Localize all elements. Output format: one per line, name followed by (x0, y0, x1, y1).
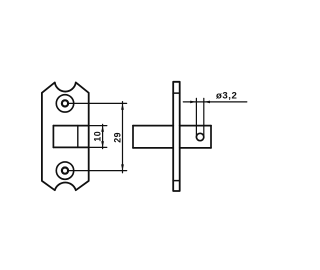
top hole inner circle (62, 100, 68, 106)
plate outline (front view) (42, 82, 89, 190)
cutout bottom edge (53, 146, 88, 148)
arrowhead dia left (190, 101, 196, 104)
extension line left of hole dia (195, 98, 197, 137)
top hole outer circle (56, 95, 73, 112)
box left edge (132, 126, 134, 148)
arrowhead 29 bottom (121, 164, 124, 170)
side view top chamfer line (173, 92, 180, 94)
box bottom edge right part (180, 147, 211, 149)
arrowhead dia right (204, 101, 210, 104)
bottom hole inner circle (62, 168, 68, 174)
side view plate rectangle (173, 82, 180, 191)
cutout left edge (52, 126, 54, 148)
dimension line dia 3,2 (183, 101, 247, 103)
arrowhead 29 top (121, 103, 124, 109)
box bottom edge left part (133, 147, 173, 149)
cutout inner vertical line (77, 126, 79, 148)
svg-text:29: 29 (113, 132, 123, 143)
extension line 10 bottom (89, 146, 107, 148)
cutout top edge (53, 125, 88, 127)
svg-text:ø3,2: ø3,2 (216, 91, 237, 102)
hole circle in side view (196, 133, 203, 140)
arrowhead 10 top (101, 126, 104, 132)
svg-text:10: 10 (92, 131, 102, 142)
extension line right of hole dia (203, 98, 205, 137)
arrowhead 10 bottom (101, 141, 104, 147)
box top edge right part (180, 125, 211, 127)
side view bottom chamfer line (173, 180, 180, 182)
extension line 10 top (89, 125, 107, 127)
dimension line 10 (102, 124, 104, 148)
leader line from bottom hole center (69, 170, 127, 172)
leader line from top hole center (69, 102, 127, 104)
box right edge (210, 126, 212, 148)
bottom hole outer circle (56, 162, 73, 179)
dimension line 29 (122, 102, 124, 173)
box top edge left part (133, 125, 173, 127)
